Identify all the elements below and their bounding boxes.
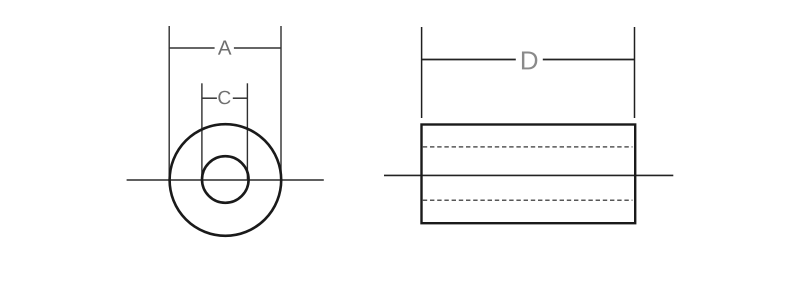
dimension line C (202, 97, 248, 99)
centerline right view (384, 174, 673, 176)
centerline left view (127, 179, 324, 181)
inner circle (202, 156, 249, 203)
hidden line lower bore (423, 199, 633, 201)
extension line A left (168, 26, 170, 180)
extension line C right (246, 83, 248, 180)
hidden line upper bore (423, 146, 633, 148)
extension line C left (201, 83, 203, 180)
label A (218, 40, 232, 54)
extension line D left (421, 27, 423, 118)
extension line D right (634, 27, 636, 118)
label D (522, 52, 537, 70)
extension line A right (280, 26, 282, 180)
outer circle (170, 124, 282, 236)
dimension line A (169, 47, 281, 49)
label C (218, 91, 230, 105)
body rectangle side view (422, 125, 636, 224)
dimension line D (422, 59, 635, 61)
